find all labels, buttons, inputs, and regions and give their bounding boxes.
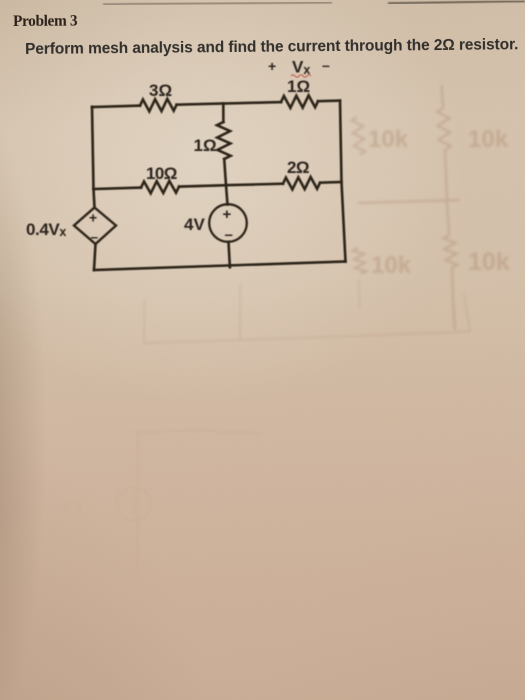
wire: middle rail (R4 to node C) bbox=[179, 185, 226, 186]
wire: node B to dependent source top bbox=[94, 189, 95, 208]
wire: top rail right segment (R2 to TR corner) bbox=[318, 99, 340, 102]
dependent source E1 0.4Vx (diamond) bbox=[74, 208, 116, 245]
wire: middle rail (node C to R5) bbox=[226, 184, 283, 186]
paper top edge shadow line (right part) bbox=[388, 1, 525, 3]
wire: R3 bottom to node C bbox=[224, 159, 226, 185]
paper top edge shadow line (left part) bbox=[103, 3, 332, 5]
ghost horizontal wire mid bbox=[358, 200, 460, 203]
wire: middle rail left segment (node B to R4) bbox=[94, 188, 142, 189]
ghost lower figure: wire, node circle bbox=[117, 431, 261, 579]
ghost wire/resistor column x=443 bbox=[437, 85, 458, 330]
wire: top rail left segment (TL corner to R1) bbox=[92, 106, 140, 107]
wire: right rail (TR corner to BR corner through node D) bbox=[340, 101, 346, 262]
wire: top rail to R2 (node A to R2) bbox=[223, 102, 281, 103]
resistor R2 1Ω (top) bbox=[281, 95, 318, 108]
voltage source V1 4V (circle) bbox=[209, 204, 247, 242]
resistor R3 1Ω (vertical) bbox=[217, 122, 231, 159]
wire: dependent source bottom to BL corner bbox=[94, 244, 96, 270]
labels bbox=[26, 57, 330, 245]
wire: left rail upper (TL corner down to node B) bbox=[92, 107, 94, 189]
red spellcheck squiggle under Vx bbox=[291, 75, 311, 77]
heading: Problem 3 bbox=[13, 13, 77, 31]
ghost bleed-through network from back of page bbox=[352, 85, 460, 330]
ghost resistor zigzag left-top (10k) bbox=[352, 117, 365, 155]
wire: bottom rail (BL to BR through node E) bbox=[94, 262, 346, 271]
wire: middle rail right segment (R5 to node D) bbox=[320, 181, 342, 184]
instruction line bbox=[25, 36, 518, 59]
resistor R4 10Ω bbox=[141, 181, 179, 193]
wire: V1 bottom to node E on bottom rail bbox=[229, 242, 230, 267]
resistor R5 2Ω bbox=[283, 177, 320, 189]
ghost resistor zigzag left-bottom (10k) bbox=[353, 248, 366, 274]
wire: node A down to R3 top bbox=[222, 104, 225, 123]
resistor R1 3Ω bbox=[140, 99, 177, 112]
ghost rectangle verticals bbox=[143, 299, 146, 343]
wire: node C down to source V1 top bbox=[226, 185, 228, 204]
wire: top rail middle segment (R1 to node A) bbox=[177, 104, 224, 105]
ghost rectangle lower horizontal bbox=[144, 332, 470, 344]
ghost 10k labels bbox=[368, 126, 510, 279]
